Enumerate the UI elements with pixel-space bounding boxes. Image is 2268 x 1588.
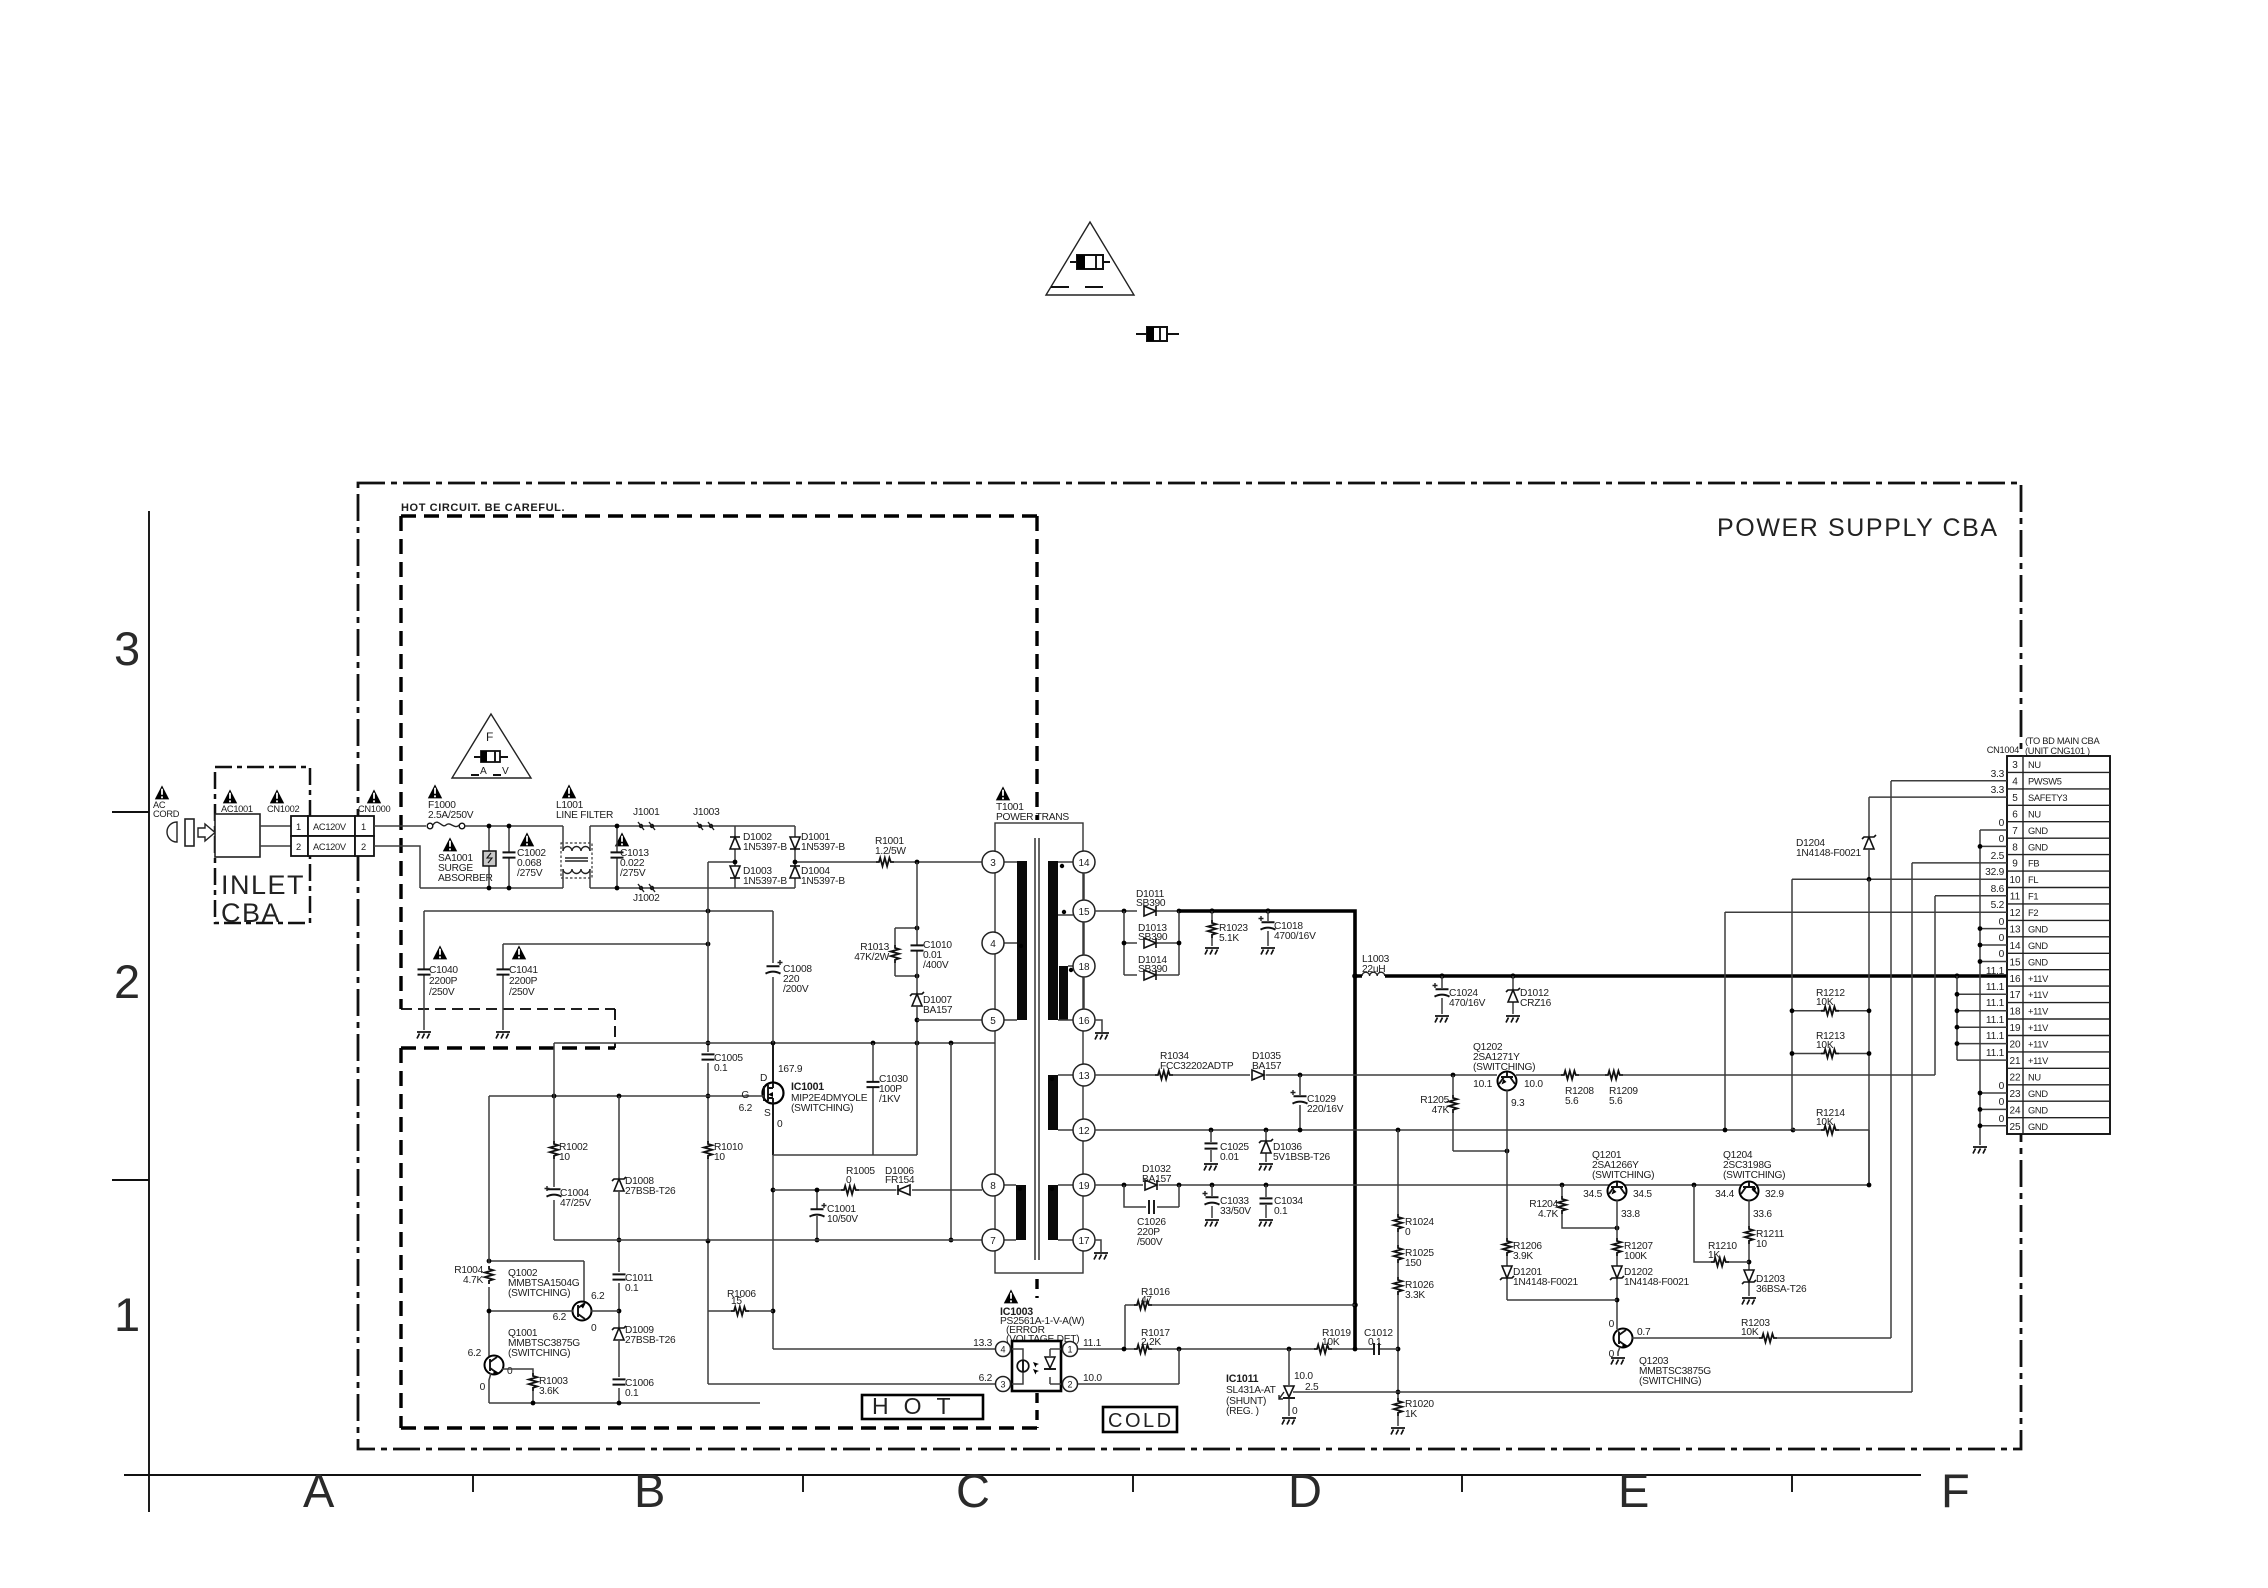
- warning triangle CN1002: [270, 789, 284, 803]
- svg-text:0: 0: [1999, 1097, 2005, 1108]
- wire R1004 column x489: [488, 1096, 490, 1356]
- warning triangle SA1001: [443, 837, 457, 851]
- svg-text:(SWITCHING): (SWITCHING): [1473, 1062, 1535, 1073]
- wire Q1002 gray box: [489, 1261, 584, 1302]
- transformer pin 16: [1073, 1009, 1095, 1031]
- svg-text:4: 4: [990, 939, 996, 950]
- svg-text:2.2K: 2.2K: [1141, 1337, 1161, 1348]
- svg-text:GND: GND: [2028, 1089, 2048, 1099]
- svg-text:CN1000: CN1000: [358, 804, 390, 814]
- svg-text:0.7: 0.7: [1637, 1327, 1651, 1338]
- transformer primary winding bar (pins 3-5): [1017, 861, 1027, 1020]
- svg-text:AC120V: AC120V: [313, 842, 347, 852]
- transformer internal taps: [1004, 862, 1073, 1240]
- transformer heater winding bar (pins 13-12): [1048, 1075, 1058, 1130]
- wire D1011 output node: [1157, 910, 1179, 912]
- svg-text:1.2/5W: 1.2/5W: [875, 846, 906, 857]
- transistor Q1204 2SC3198G: [1715, 1150, 1785, 1220]
- warning triangle with fuse symbol (top): [1046, 222, 1134, 295]
- ground C1040: [417, 1032, 431, 1039]
- svg-text:5.6: 5.6: [1565, 1096, 1579, 1107]
- svg-text:1K: 1K: [1708, 1250, 1720, 1261]
- svg-text:27BSB-T26: 27BSB-T26: [625, 1335, 676, 1346]
- svg-text:34.5: 34.5: [1633, 1189, 1652, 1200]
- svg-text:10K: 10K: [1816, 1040, 1834, 1051]
- capacitor C1025 0.01: [1205, 1130, 1250, 1163]
- svg-text:GND: GND: [2028, 842, 2048, 852]
- small fuse symbol (below triangle): [1136, 327, 1179, 341]
- wire FL column x1792: [1791, 879, 1793, 1130]
- svg-text:V: V: [502, 766, 509, 777]
- resistor R1212 10K: [1790, 988, 1872, 1015]
- svg-text:SAFETY3: SAFETY3: [2028, 793, 2067, 803]
- svg-text:(SWITCHING): (SWITCHING): [1639, 1376, 1701, 1387]
- svg-text:16: 16: [2009, 974, 2021, 985]
- svg-text:33.8: 33.8: [1621, 1209, 1640, 1220]
- POWER SUPPLY CBA dash-dot border: [358, 483, 2021, 1449]
- svg-text:POWER SUPPLY CBA: POWER SUPPLY CBA: [1717, 514, 1999, 542]
- wire Q1002 base y1311: [489, 1310, 619, 1312]
- op-amp/MOSFET IC1001 MIP2E4DMYOLE: [739, 1064, 868, 1130]
- svg-text:7: 7: [990, 1236, 996, 1247]
- svg-text:12: 12: [2009, 908, 2021, 919]
- svg-text:/200V: /200V: [783, 984, 809, 995]
- warning triangle C1002: [520, 832, 534, 846]
- transformer secondary winding bar (pins 14-16): [1048, 861, 1058, 1020]
- svg-text:1N5397-B: 1N5397-B: [743, 842, 787, 853]
- svg-text:2.5: 2.5: [1991, 851, 2005, 862]
- row tick 2/1: [112, 1179, 149, 1181]
- column tick E/F: [1791, 1475, 1793, 1492]
- svg-text:11.1: 11.1: [1986, 966, 2005, 977]
- wire bridge negative to left column: [708, 861, 735, 863]
- wire pin13 13.3V line: [1095, 896, 1935, 1075]
- svg-text:BA157: BA157: [923, 1005, 953, 1016]
- svg-text:17: 17: [1078, 1236, 1090, 1247]
- svg-text:20: 20: [2009, 1040, 2021, 1051]
- svg-text:0: 0: [1405, 1227, 1411, 1238]
- warning triangle C1013: [615, 832, 629, 846]
- connector AC1001: [215, 804, 260, 857]
- svg-text:8: 8: [2012, 842, 2018, 853]
- svg-text:13.3: 13.3: [973, 1338, 992, 1349]
- svg-text:10: 10: [2009, 875, 2021, 886]
- wire pin4 PWSW5 stub: [1891, 780, 2007, 782]
- connector CN1004 voltage labels: [1985, 769, 2004, 1125]
- svg-text:3: 3: [2012, 760, 2018, 771]
- svg-text:D: D: [760, 1073, 767, 1084]
- diode D1007 BA157: [910, 992, 953, 1043]
- warning triangle AC1001: [223, 789, 237, 803]
- svg-text:0: 0: [507, 1366, 513, 1377]
- wire IC1003 pin2 to feedback: [1078, 1349, 1179, 1384]
- capacitor C1002 0.068/275V: [503, 824, 547, 891]
- svg-text:24: 24: [2009, 1105, 2021, 1116]
- svg-text:10.0: 10.0: [1524, 1079, 1543, 1090]
- ground GND bus: [1973, 1147, 1987, 1154]
- capacitor C1010 0.01/400V: [911, 862, 953, 994]
- wire Q1203 base from D1202 node: [1617, 1329, 1619, 1332]
- resistor R1210 1K: [1694, 1185, 1749, 1266]
- resistor R1213 10K: [1790, 1031, 1872, 1058]
- capacitor C1029 220/16V: [1291, 1075, 1344, 1130]
- zener D1009 27BSB-T26: [612, 1325, 676, 1346]
- transistor Q1002 MMBTSA1504G: [508, 1268, 605, 1334]
- svg-text:SL431A-AT: SL431A-AT: [1226, 1385, 1276, 1396]
- wire fuse to bridge (top AC rail): [465, 825, 735, 827]
- warning triangle F/A/V (fuse rating): [452, 714, 531, 778]
- svg-text:1N5397-B: 1N5397-B: [801, 876, 845, 887]
- svg-text:16: 16: [1078, 1016, 1090, 1027]
- svg-text:1N4148-F0021: 1N4148-F0021: [1624, 1277, 1690, 1288]
- transformer pin 19: [1073, 1174, 1095, 1196]
- svg-text:9: 9: [2012, 859, 2018, 870]
- zener D1036 5V1BSB-T26: [1259, 1130, 1331, 1163]
- svg-text:10.0: 10.0: [1294, 1371, 1313, 1382]
- svg-text:10: 10: [714, 1152, 725, 1163]
- column tick D/E: [1461, 1475, 1463, 1492]
- svg-text:LINE FILTER: LINE FILTER: [556, 810, 613, 821]
- warning triangle T1001: [996, 786, 1010, 800]
- svg-text:1: 1: [361, 822, 366, 832]
- svg-text:0: 0: [1609, 1319, 1615, 1330]
- resistor R1214 10K: [1793, 1108, 1871, 1187]
- svg-text:18: 18: [2009, 1007, 2021, 1018]
- wire DC negative column x708: [707, 862, 709, 1311]
- svg-text:3: 3: [114, 622, 140, 675]
- svg-text:10: 10: [1756, 1239, 1767, 1250]
- svg-text:4700/16V: 4700/16V: [1274, 931, 1316, 942]
- svg-text:18: 18: [1078, 962, 1090, 973]
- svg-text:0.1: 0.1: [625, 1388, 639, 1399]
- svg-text:GND: GND: [2028, 826, 2048, 836]
- column tick B/C: [802, 1475, 804, 1492]
- svg-text:FCC32202ADTP: FCC32202ADTP: [1160, 1061, 1234, 1072]
- svg-text:13: 13: [2009, 925, 2021, 936]
- svg-text:AC120V: AC120V: [313, 822, 347, 832]
- wire R1006 line y1311: [708, 1310, 773, 1312]
- ground D1012: [1506, 1016, 1520, 1023]
- diode D1202 1N4148-F0021: [1610, 1266, 1690, 1288]
- inductor L1003 22uH: [1362, 954, 1390, 976]
- capacitor C1041 2200P/250V: [497, 944, 539, 1030]
- svg-text:3.3: 3.3: [1991, 785, 2005, 796]
- ground C1034: [1259, 1220, 1273, 1227]
- svg-text:1N4148-F0021: 1N4148-F0021: [1796, 848, 1862, 859]
- svg-text:47: 47: [1141, 1295, 1152, 1306]
- svg-text:10K: 10K: [1322, 1337, 1340, 1348]
- wire +11V bracket for pins 17-21: [1957, 976, 2007, 1060]
- svg-text:17: 17: [2009, 990, 2021, 1001]
- svg-text:2: 2: [1067, 1380, 1072, 1390]
- HOT CIRCUIT dashed boundary: [401, 516, 1037, 1428]
- wire Q1202 collector column: [1506, 1090, 1508, 1300]
- svg-text:SB390: SB390: [1136, 898, 1166, 909]
- transformer pin 13: [1073, 1064, 1095, 1086]
- resistor R1019 10K: [1314, 1328, 1351, 1353]
- svg-text:11.1: 11.1: [1083, 1338, 1102, 1349]
- resistor R1025 150: [1394, 1245, 1435, 1269]
- svg-text:6.2: 6.2: [979, 1373, 993, 1384]
- svg-text:COLD: COLD: [1108, 1410, 1174, 1432]
- ground R1023: [1205, 948, 1219, 955]
- svg-text:10/50V: 10/50V: [827, 1214, 858, 1225]
- resistor R1016 47: [1134, 1287, 1170, 1309]
- svg-text:+11V: +11V: [2028, 1040, 2049, 1050]
- svg-text:2200P: 2200P: [509, 976, 538, 987]
- wire source-sense rail y1240 to pin 7: [554, 1239, 982, 1241]
- svg-text:5.1K: 5.1K: [1219, 933, 1239, 944]
- connector CN1004 header labels: [1987, 736, 2101, 756]
- wire bridge positive to R1001: [795, 861, 876, 863]
- svg-text:0.1: 0.1: [625, 1283, 639, 1294]
- zener D1203 36BSA-T26: [1742, 1270, 1807, 1295]
- svg-text:+11V: +11V: [2028, 990, 2049, 1000]
- svg-text:10K: 10K: [1741, 1327, 1759, 1338]
- transformer core lines: [1035, 838, 1039, 1260]
- resistor R1024 0: [1394, 1214, 1435, 1238]
- resistor R1034 FCC32202ADTP: [1155, 1051, 1234, 1079]
- opto-coupler IC1003 body: [1012, 1341, 1061, 1391]
- svg-text:0: 0: [591, 1323, 597, 1334]
- transformer pin 12: [1073, 1119, 1095, 1141]
- transformer aux primary bar (pins 8-7): [1016, 1185, 1026, 1240]
- svg-text:11.1: 11.1: [1986, 998, 2005, 1009]
- resistor R1205 47K: [1420, 1075, 1509, 1153]
- svg-text:0: 0: [1999, 1114, 2005, 1125]
- svg-text:F2: F2: [2028, 908, 2038, 918]
- svg-text:(SWITCHING): (SWITCHING): [1592, 1170, 1654, 1181]
- svg-text:220/16V: 220/16V: [1307, 1104, 1344, 1115]
- svg-text:B: B: [634, 1464, 665, 1517]
- resistor R1206 3.9K: [1503, 1238, 1543, 1262]
- svg-text:C1040: C1040: [429, 965, 458, 976]
- wire drain rail y1043: [554, 1042, 995, 1044]
- opto pin 4: [996, 1342, 1011, 1357]
- svg-text:5: 5: [2012, 793, 2018, 804]
- svg-text:0: 0: [480, 1382, 486, 1393]
- svg-text:A: A: [480, 766, 487, 777]
- opto pin 2: [1063, 1377, 1078, 1392]
- transistor Q1202 2SA1271Y: [1473, 1042, 1543, 1109]
- resistor R1209 5.6: [1605, 1071, 1638, 1107]
- diode D1032 BA157: [1142, 1164, 1172, 1190]
- jumper J1001: [633, 807, 660, 830]
- ground C1018: [1261, 948, 1275, 955]
- wire R1001 to transformer pin 3: [894, 861, 982, 863]
- diode D1204 1N4148-F0021: [1796, 835, 1876, 879]
- svg-text:0: 0: [846, 1175, 852, 1186]
- diode D1014 SB390: [1138, 955, 1168, 980]
- svg-text:FR154: FR154: [885, 1175, 915, 1186]
- svg-text:10: 10: [559, 1152, 570, 1163]
- svg-text:AC1001: AC1001: [221, 804, 253, 814]
- svg-text:3: 3: [990, 858, 996, 869]
- wire Q1001 emitter to ground rail: [489, 1373, 491, 1403]
- capacitor C1001 10/50V: [810, 1188, 859, 1243]
- svg-text:GND: GND: [2028, 1122, 2048, 1132]
- capacitor C1034 0.1: [1260, 1185, 1304, 1218]
- svg-text:3.3: 3.3: [1991, 769, 2005, 780]
- transformer pin 7: [982, 1229, 1004, 1251]
- svg-text:15: 15: [731, 1296, 742, 1307]
- svg-text:150: 150: [1405, 1258, 1422, 1269]
- ground D1036: [1259, 1164, 1273, 1171]
- transformer secondary bar (pins 19-17): [1048, 1185, 1058, 1240]
- wire pin10 FL line: [1792, 878, 2007, 880]
- svg-text:36BSA-T26: 36BSA-T26: [1756, 1284, 1807, 1295]
- ground C1041: [496, 1032, 510, 1039]
- connector CN1002/CN1000 cell table: [291, 816, 374, 856]
- wire pin19 +33V line y1185: [1095, 1184, 1869, 1186]
- svg-text:9.3: 9.3: [1511, 1098, 1525, 1109]
- svg-text:HOT CIRCUIT. BE CAREFUL.: HOT CIRCUIT. BE CAREFUL.: [401, 502, 565, 514]
- row tick 3/2: [112, 811, 149, 813]
- svg-text:+11V: +11V: [2028, 974, 2049, 984]
- svg-text:+11V: +11V: [2028, 1056, 2049, 1066]
- svg-text:S: S: [764, 1108, 771, 1119]
- capacitor C1012 0.1: [1364, 1328, 1393, 1355]
- svg-text:/250V: /250V: [509, 987, 535, 998]
- svg-text:0.1: 0.1: [1274, 1206, 1288, 1217]
- svg-text:1: 1: [296, 822, 301, 832]
- svg-text:11.1: 11.1: [1986, 1015, 2005, 1026]
- svg-text:5: 5: [990, 1016, 996, 1027]
- svg-text:3: 3: [1000, 1380, 1005, 1390]
- ground IC1011: [1282, 1418, 1296, 1425]
- transformer pin 17: [1073, 1229, 1095, 1251]
- wire Q1002 emitter line to IC1003 pin3: [708, 1311, 996, 1384]
- bridge rectifier outline: [735, 826, 795, 888]
- capacitor C1011 0.1: [613, 1273, 654, 1294]
- capacitor C1040 2200P/250V: [418, 911, 459, 1030]
- svg-text:0: 0: [777, 1119, 783, 1130]
- svg-text:/275V: /275V: [620, 868, 646, 879]
- svg-text:J1002: J1002: [633, 893, 660, 904]
- svg-text:C: C: [956, 1464, 990, 1517]
- svg-text:4: 4: [2012, 777, 2018, 788]
- svg-text:F: F: [486, 730, 493, 744]
- svg-text:+11V: +11V: [2028, 1007, 2049, 1017]
- svg-text:BA157: BA157: [1142, 1174, 1172, 1185]
- svg-text:FB: FB: [2028, 859, 2039, 869]
- zener D1008 27BSB-T26: [612, 1176, 676, 1197]
- diode D1003 1N5397-B: [730, 866, 787, 887]
- svg-text:7: 7: [2012, 826, 2018, 837]
- resistor R1026 3.3K: [1394, 1277, 1435, 1301]
- resistor R1208 5.6: [1561, 1071, 1594, 1107]
- svg-text:SB390: SB390: [1138, 932, 1168, 943]
- wire pin5 SAFETY3 stub: [1869, 797, 2007, 836]
- svg-text:19: 19: [2009, 1023, 2021, 1034]
- wire D1008 column x619: [618, 1096, 620, 1403]
- transformer pin 15: [1073, 900, 1095, 922]
- svg-text:0.01: 0.01: [1220, 1152, 1239, 1163]
- transformer pin 8: [982, 1174, 1004, 1196]
- svg-text:(UNIT CNG101 ): (UNIT CNG101 ): [2025, 746, 2090, 756]
- resistor R1211 10: [1745, 1226, 1785, 1250]
- warning triangle C1040: [433, 945, 447, 959]
- svg-text:10.0: 10.0: [1083, 1373, 1102, 1384]
- svg-text:8: 8: [990, 1181, 996, 1192]
- resistor R1002 10: [550, 1141, 589, 1163]
- wire Q1203 emitter to ground: [1618, 1347, 1620, 1356]
- warning triangle F1000: [428, 784, 442, 798]
- node voltage labels around IC1003: [973, 1338, 1102, 1384]
- fuse F1000 2.5A/250V: [427, 800, 474, 829]
- svg-text:11.1: 11.1: [1986, 1048, 2005, 1059]
- svg-text:A: A: [303, 1464, 335, 1517]
- svg-text:22uH: 22uH: [1362, 964, 1385, 975]
- resistor R1001 1.2/5W: [875, 836, 906, 866]
- svg-text:ABSORBER: ABSORBER: [438, 873, 493, 884]
- svg-text:CN1004: CN1004: [1987, 745, 2019, 755]
- svg-text:6: 6: [2012, 809, 2018, 820]
- wire pin5 to snubber: [917, 1019, 982, 1021]
- svg-text:13: 13: [1078, 1071, 1090, 1082]
- svg-text:15: 15: [1078, 907, 1090, 918]
- resistor R1207 100K: [1613, 1238, 1654, 1262]
- svg-text:27BSB-T26: 27BSB-T26: [625, 1186, 676, 1197]
- wire AC1001 to CN1002 row1: [260, 825, 291, 827]
- capacitor C1006 0.1: [613, 1378, 655, 1399]
- svg-text:470/16V: 470/16V: [1449, 998, 1486, 1009]
- capacitor C1024 470/16V: [1433, 976, 1486, 1014]
- svg-text:D: D: [1288, 1464, 1322, 1517]
- resistor R1017 2.2K: [1134, 1328, 1170, 1353]
- opto pin 3: [996, 1377, 1011, 1392]
- svg-text:4.7K: 4.7K: [1538, 1209, 1558, 1220]
- svg-text:47/25V: 47/25V: [560, 1198, 591, 1209]
- svg-text:2: 2: [296, 842, 301, 852]
- wire pins 14-15-18-16 tie: [1083, 873, 1085, 1009]
- ground pin 16: [1095, 1020, 1109, 1040]
- wire D1013/D1014 parallel brackets: [1124, 911, 1179, 975]
- wire AC return line y911: [424, 910, 773, 912]
- svg-text:GND: GND: [2028, 957, 2048, 967]
- jumper J1003: [693, 807, 720, 830]
- diode D1011 SB390: [1136, 889, 1166, 916]
- connector CN1004 pin numbers and names: [2009, 760, 2067, 1133]
- svg-text:100K: 100K: [1624, 1251, 1647, 1262]
- transformer T1001 POWER TRANS labels: [996, 802, 1069, 823]
- transformer T1001 outline: [995, 823, 1083, 1273]
- transformer pin-18 winding bar segment: [1059, 966, 1068, 1020]
- wire C1041 branch line y944: [503, 943, 708, 945]
- svg-text:6.2: 6.2: [553, 1312, 567, 1323]
- svg-text:10K: 10K: [1816, 997, 1834, 1008]
- svg-text:F: F: [1941, 1464, 1970, 1517]
- svg-text:/500V: /500V: [1137, 1237, 1163, 1248]
- svg-text:GND: GND: [2028, 1105, 2048, 1115]
- svg-text:1: 1: [114, 1288, 140, 1341]
- resistor R1204 4.7K: [1529, 1185, 1619, 1230]
- svg-text:47K: 47K: [1432, 1105, 1450, 1116]
- wire IC1003 pin1 output line y1349: [1078, 1348, 1398, 1350]
- capacitor C1026 220P/500V: [1124, 1185, 1179, 1248]
- svg-text:167.9: 167.9: [778, 1064, 803, 1075]
- warning triangle IC1003: [1004, 1289, 1018, 1303]
- svg-text:GND: GND: [2028, 925, 2048, 935]
- connector cell texts: [296, 822, 366, 852]
- transformer pin 14: [1073, 851, 1095, 873]
- wire R1002 column x554: [553, 1043, 555, 1240]
- diode D1035 BA157: [1252, 1051, 1282, 1080]
- column tick A/B: [472, 1475, 474, 1492]
- capacitor C1030 100P/1KV: [867, 1043, 909, 1155]
- svg-text:1K: 1K: [1405, 1409, 1417, 1420]
- diode D1013 SB390: [1138, 923, 1168, 948]
